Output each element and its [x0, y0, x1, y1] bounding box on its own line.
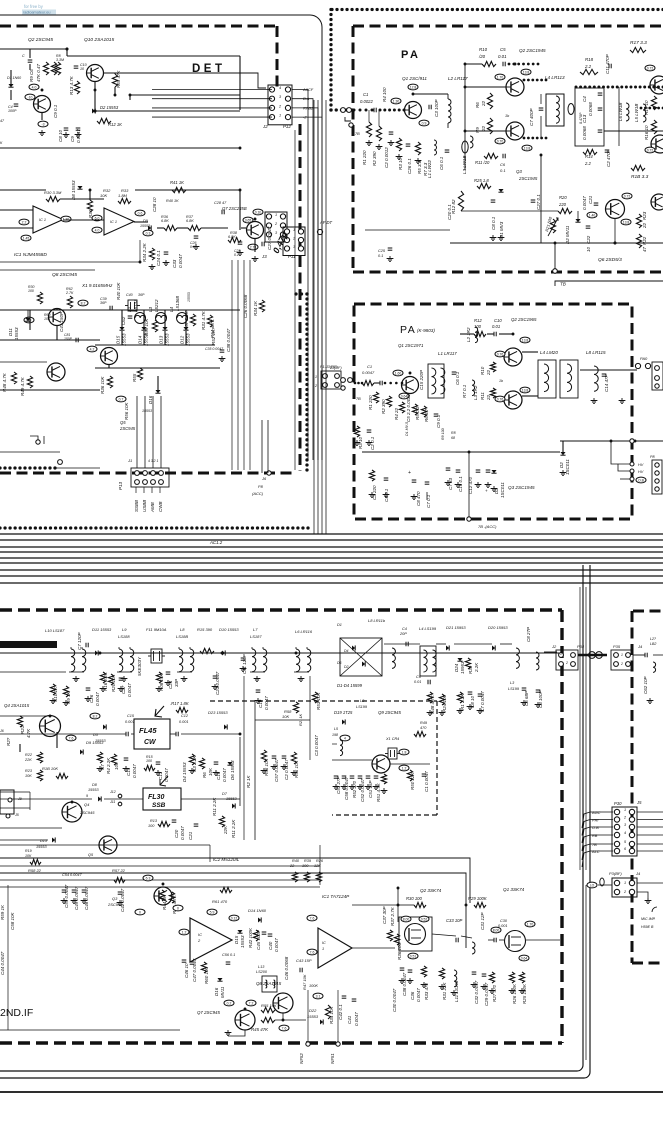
svg-text:100: 100: [302, 864, 309, 868]
svg-text:R10: R10: [479, 47, 488, 52]
svg-text:3.65: 3.65: [245, 218, 252, 222]
svg-text:C41 150P: C41 150P: [59, 312, 64, 332]
svg-text:1.60: 1.60: [395, 371, 402, 375]
svg-text:R49 4.7K: R49 4.7K: [20, 376, 25, 396]
svg-text:15553: 15553: [88, 788, 99, 792]
svg-text:C27 0.1: C27 0.1: [536, 194, 541, 210]
svg-text:D21 15953: D21 15953: [446, 625, 466, 630]
svg-text:R56 10K: R56 10K: [124, 401, 129, 420]
svg-text:L2?: L2?: [650, 637, 656, 641]
svg-text:D1 MV3: D1 MV3: [499, 221, 504, 238]
svg-text:C12: C12: [181, 714, 189, 718]
svg-text:R61 470: R61 470: [212, 899, 228, 904]
svg-text:0.470P: 0.470P: [579, 112, 583, 124]
svg-text:D19 1T25: D19 1T25: [334, 710, 353, 715]
svg-text:L4 LR113: L4 LR113: [545, 75, 565, 80]
svg-text:15553: 15553: [142, 409, 152, 413]
svg-text:D1: D1: [337, 623, 342, 627]
svg-text:D4: D4: [344, 649, 349, 653]
svg-text:MIC IMP.: MIC IMP.: [641, 917, 656, 921]
svg-text:IC1 NJM4558D: IC1 NJM4558D: [14, 252, 47, 258]
svg-text:2.2: 2.2: [22, 220, 27, 224]
svg-text:Q2 2SC1945: Q2 2SC1945: [519, 48, 546, 53]
svg-text:1: 1: [624, 808, 626, 812]
svg-text:AC1.2: AC1.2: [209, 540, 223, 545]
svg-text:7B: 7B: [356, 397, 361, 401]
svg-text:R30 100: R30 100: [406, 896, 423, 901]
svg-text:R40 1K: R40 1K: [166, 199, 179, 203]
svg-text:Q7 2SC945: Q7 2SC945: [197, 1010, 221, 1015]
svg-text:C24: C24: [168, 680, 173, 689]
svg-text:Q7 2SC245B: Q7 2SC245B: [222, 206, 247, 211]
svg-text:C25: C25: [378, 249, 386, 253]
svg-text:C21: C21: [188, 831, 193, 840]
svg-text:C6 0.1: C6 0.1: [455, 371, 460, 385]
svg-text:C27 0.0047: C27 0.0047: [267, 226, 272, 250]
svg-text:R25 1.8: R25 1.8: [474, 178, 489, 183]
svg-text:R6: R6: [475, 102, 480, 108]
svg-text:C15: C15: [127, 714, 135, 718]
svg-text:1.30: 1.30: [63, 217, 70, 221]
svg-text:LS199: LS199: [508, 687, 520, 691]
svg-text:1: 1: [315, 375, 317, 379]
svg-text:1: 1: [279, 114, 281, 118]
svg-text:0.51: 0.51: [410, 954, 417, 958]
svg-text:20P: 20P: [399, 632, 407, 636]
svg-text:0.76: 0.76: [497, 352, 504, 356]
svg-text:R11 2.2K: R11 2.2K: [231, 819, 236, 838]
svg-text:5.9: 5.9: [210, 910, 215, 914]
svg-text:D2: D2: [559, 462, 564, 468]
svg-text:15553: 15553: [140, 224, 150, 228]
svg-text:C3 100P: C3 100P: [538, 690, 543, 708]
svg-text:D13: D13: [159, 335, 164, 344]
svg-text:LB2: LB2: [650, 642, 656, 646]
svg-text:CWB: CWB: [158, 502, 163, 513]
svg-text:O.B: O.B: [592, 825, 599, 830]
svg-text:1: 1: [322, 947, 324, 951]
svg-text:15553: 15553: [187, 292, 191, 302]
svg-text:C6 0.1: C6 0.1: [439, 156, 444, 170]
svg-text:C43 15P: C43 15P: [296, 958, 312, 963]
svg-text:R40 10K: R40 10K: [116, 281, 121, 300]
svg-text:L10 LS187: L10 LS187: [45, 628, 65, 633]
svg-text:7B: 7B: [355, 132, 360, 136]
svg-text:L2: L2: [127, 306, 132, 312]
svg-text:0.0068: 0.0068: [588, 102, 593, 116]
svg-text:C62: C62: [121, 316, 126, 325]
svg-text:L5: L5: [334, 727, 338, 731]
svg-text:10: 10: [80, 67, 84, 71]
svg-text:0.1: 0.1: [378, 254, 383, 258]
svg-text:R49: R49: [420, 721, 428, 725]
svg-text:D2 15553: D2 15553: [100, 105, 119, 110]
svg-text:R39: R39: [304, 859, 312, 863]
svg-text:R4 2.2K: R4 2.2K: [106, 757, 111, 774]
svg-text:10K: 10K: [25, 854, 32, 858]
svg-text:C8 0.1: C8 0.1: [491, 216, 496, 230]
svg-text:0.72: 0.72: [624, 194, 631, 198]
svg-text:6.8K: 6.8K: [186, 219, 194, 223]
svg-text:R2 1K: R2 1K: [246, 774, 251, 788]
svg-text:(ACC): (ACC): [252, 491, 264, 496]
svg-text:L1 LR117: L1 LR117: [438, 351, 457, 356]
svg-text:C38 0.0047: C38 0.0047: [402, 972, 407, 996]
svg-text:J3(RF): J3(RF): [329, 366, 342, 370]
svg-text:0.0047: 0.0047: [127, 683, 132, 697]
svg-text:.R17 1.8K: .R17 1.8K: [170, 701, 189, 706]
svg-text:D20 15953: D20 15953: [488, 625, 508, 630]
svg-text:C51 15P: C51 15P: [368, 780, 373, 798]
svg-text:C41: C41: [347, 1015, 352, 1024]
svg-text:C4: C4: [402, 627, 407, 631]
svg-text:15553: 15553: [36, 845, 47, 849]
svg-text:RB: RB: [592, 833, 598, 838]
svg-text:R13: R13: [150, 819, 158, 823]
svg-text:L4 LM20: L4 LM20: [540, 350, 558, 355]
svg-text:0.01: 0.01: [498, 54, 507, 59]
svg-text:Q4 2SA1015: Q4 2SA1015: [4, 703, 30, 708]
svg-text:L8 LR115: L8 LR115: [586, 350, 606, 355]
svg-text:R55 10K: R55 10K: [261, 1003, 277, 1008]
svg-text:C15 220P: C15 220P: [419, 370, 424, 390]
svg-text:0.0047: 0.0047: [222, 768, 227, 782]
svg-text:15553: 15553: [165, 333, 170, 346]
svg-text:R65 47K: R65 47K: [116, 69, 121, 88]
svg-text:4: 4: [279, 86, 281, 90]
svg-text:9: 9: [86, 794, 88, 798]
svg-text:1b: 1b: [499, 379, 503, 383]
svg-text:8.2: 8.2: [81, 301, 86, 305]
svg-text:L3 1R2: L3 1R2: [473, 385, 478, 400]
svg-text:D11: D11: [8, 328, 13, 336]
svg-text:Q1 2SC1971: Q1 2SC1971: [398, 343, 424, 348]
svg-text:R25 100K: R25 100K: [522, 983, 527, 1004]
svg-text:P12: P12: [283, 124, 291, 129]
svg-text:0.1b: 0.1b: [255, 210, 262, 214]
svg-text:C: C: [22, 54, 25, 58]
svg-text:100: 100: [474, 324, 482, 329]
svg-text:Q3 2SC1945: Q3 2SC1945: [508, 485, 535, 490]
svg-text:Q5: Q5: [88, 853, 94, 857]
svg-text:D5: D5: [337, 661, 342, 665]
svg-text:D14: D14: [138, 335, 143, 344]
svg-text:0.0047: 0.0047: [274, 938, 279, 952]
svg-text:0.52: 0.52: [421, 917, 428, 921]
svg-text:1: 1: [621, 653, 623, 657]
svg-text:5KE303Y: 5KE303Y: [137, 656, 142, 676]
svg-text:-10: -10: [28, 95, 33, 99]
svg-text:PRI: PRI: [592, 818, 599, 823]
svg-text:R33 470: R33 470: [424, 982, 429, 1000]
svg-text:1b: 1b: [505, 114, 509, 118]
svg-text:R18: R18: [585, 57, 594, 62]
svg-text:L3 LW1B: L3 LW1B: [462, 156, 467, 174]
svg-text:0.72: 0.72: [647, 148, 654, 152]
svg-text:68: 68: [451, 436, 455, 440]
svg-text:36P: 36P: [138, 293, 145, 297]
svg-text:C8 470: C8 470: [416, 491, 421, 506]
svg-text:X1 9.0165MHz: X1 9.0165MHz: [81, 283, 113, 288]
svg-text:C20: C20: [174, 829, 179, 838]
svg-text:D22: D22: [309, 1008, 317, 1013]
svg-text:IC 1: IC 1: [110, 220, 117, 224]
svg-text:R22: R22: [642, 236, 647, 245]
svg-text:R54 4.7K: R54 4.7K: [210, 318, 215, 338]
svg-text:D15: D15: [234, 935, 239, 944]
svg-text:470: 470: [420, 726, 427, 730]
svg-text:13.8: 13.8: [522, 388, 529, 392]
svg-text:100: 100: [28, 289, 34, 293]
svg-text:FL45: FL45: [139, 726, 157, 735]
svg-text:PA: PA: [401, 49, 420, 61]
svg-text:R9 100: R9 100: [441, 428, 445, 440]
svg-text:4: 4: [624, 831, 626, 835]
svg-text:D9 15553: D9 15553: [86, 740, 104, 745]
svg-text:Q2 2SC1965: Q2 2SC1965: [511, 317, 537, 322]
svg-text:8.2: 8.2: [93, 714, 98, 718]
svg-text:C52 0.0047: C52 0.0047: [360, 778, 365, 802]
svg-text:15553: 15553: [186, 333, 191, 346]
svg-text:C6: C6: [500, 162, 506, 167]
svg-text:C38 0.0047: C38 0.0047: [226, 328, 231, 352]
svg-text:/20: /20: [478, 54, 486, 59]
svg-text:J3: J3: [261, 254, 267, 259]
svg-text:R60 100: R60 100: [204, 966, 209, 984]
svg-text:Q8 2SC945: Q8 2SC945: [52, 272, 77, 278]
svg-text:LO: LO: [590, 883, 595, 887]
svg-text:L1 LW22: L1 LW22: [427, 160, 432, 178]
svg-text:10: 10: [586, 246, 591, 252]
svg-text:C40: C40: [268, 941, 273, 950]
svg-text:13.8: 13.8: [623, 220, 630, 224]
svg-text:0.72: 0.72: [647, 66, 654, 70]
svg-text:2.7K: 2.7K: [65, 291, 74, 295]
svg-text:R40: R40: [292, 859, 300, 863]
svg-text:15553: 15553: [122, 333, 127, 346]
svg-text:C3 220: C3 220: [372, 485, 377, 500]
svg-text:C59 0.0047: C59 0.0047: [64, 884, 69, 908]
svg-text:IC 1: IC 1: [39, 218, 46, 222]
svg-text:0.0047: 0.0047: [582, 196, 587, 210]
svg-text:C28 47: C28 47: [214, 201, 227, 205]
svg-text:C46 10: C46 10: [184, 963, 189, 978]
svg-text:USBB: USBB: [142, 500, 147, 512]
svg-text:C5 2.2 0.0022: C5 2.2 0.0022: [406, 393, 411, 422]
svg-text:10K: 10K: [100, 193, 107, 198]
svg-text:C30 0.0047: C30 0.0047: [392, 988, 397, 1012]
svg-text:4.0: 4.0: [32, 85, 37, 89]
svg-text:22K: 22K: [223, 825, 228, 835]
svg-text:0.0047: 0.0047: [132, 764, 137, 778]
svg-text:0.2: 0.2: [227, 1001, 232, 1005]
svg-text:R2?: R2?: [6, 737, 11, 746]
svg-text:1.30: 1.30: [393, 99, 400, 103]
svg-text:4.2: 4.2: [90, 347, 95, 351]
svg-text:ALC: ALC: [591, 849, 600, 854]
svg-text:13.8: 13.8: [524, 146, 531, 150]
svg-text:13.8: 13.8: [522, 338, 529, 342]
svg-text:R36 10K: R36 10K: [100, 375, 105, 394]
svg-text:2: 2: [620, 662, 623, 666]
svg-text:PA0: PA0: [640, 356, 648, 361]
svg-text:0.0047: 0.0047: [362, 370, 375, 375]
svg-text:P13: P13: [118, 481, 123, 490]
svg-text:15953: 15953: [460, 661, 465, 674]
svg-text:C8 10: C8 10: [58, 129, 63, 142]
svg-text:P35: P35: [613, 644, 621, 649]
svg-text:C3 0.0047: C3 0.0047: [314, 735, 319, 756]
svg-text:Q1 3SK74: Q1 3SK74: [503, 887, 525, 892]
svg-text:L13: L13: [258, 965, 265, 969]
svg-text:0.0047: 0.0047: [178, 254, 183, 268]
svg-text:0.01: 0.01: [414, 680, 421, 684]
svg-text:+: +: [484, 489, 489, 492]
svg-text:H59E B: H59E B: [641, 925, 654, 929]
svg-text:0.0022: 0.0022: [360, 99, 373, 104]
svg-text:100P: 100P: [8, 109, 17, 113]
svg-text:D16: D16: [214, 987, 219, 996]
svg-text:1.8: 1.8: [402, 750, 407, 754]
svg-text:C37 30P: C37 30P: [382, 906, 387, 924]
svg-text:R31 4.7K: R31 4.7K: [201, 310, 206, 330]
svg-text:D1 MV-5: D1 MV-5: [405, 422, 409, 436]
svg-text:PA: PA: [400, 324, 416, 336]
svg-text:R22: R22: [25, 753, 33, 757]
svg-text:1: 1: [560, 652, 562, 656]
svg-text:L51368: L51368: [175, 295, 180, 311]
svg-text:C1: C1: [363, 92, 368, 97]
svg-text:L8 LR11b: L8 LR11b: [368, 618, 386, 623]
svg-text:7B -(ACC): 7B -(ACC): [478, 524, 497, 529]
svg-text:AMB: AMB: [150, 502, 155, 513]
svg-text:Q1 2SC/911: Q1 2SC/911: [402, 76, 427, 81]
svg-text:D14 1N60: D14 1N60: [248, 908, 267, 913]
svg-text:C9 0.1: C9 0.1: [53, 104, 58, 118]
svg-text:C24 0.1: C24 0.1: [156, 250, 161, 266]
svg-text:Q2 2SC945: Q2 2SC945: [28, 37, 53, 43]
svg-text:R30 3.3M: R30 3.3M: [44, 190, 62, 195]
svg-text:D4 15553: D4 15553: [182, 762, 187, 782]
svg-text:7.2: 7.2: [249, 1001, 254, 1005]
svg-text:0.76: 0.76: [497, 397, 504, 401]
svg-text:R7 0.1: R7 0.1: [462, 384, 467, 398]
svg-text:(K-9803): (K-9803): [417, 328, 435, 333]
svg-text:0.0047: 0.0047: [416, 988, 421, 1002]
svg-text:D1 1N60: D1 1N60: [7, 76, 21, 80]
svg-text:C12 470: C12 470: [468, 476, 473, 494]
svg-text:C32 0.0047: C32 0.0047: [474, 980, 479, 1004]
svg-text:C3 100P: C3 100P: [434, 99, 439, 117]
svg-text:C58 10K: C58 10K: [10, 911, 15, 930]
svg-text:2.2: 2.2: [584, 161, 591, 166]
svg-text:15553: 15553: [226, 797, 237, 801]
svg-text:D23 15553: D23 15553: [208, 710, 228, 715]
svg-text:47: 47: [642, 246, 647, 252]
svg-text:C36: C36: [410, 991, 415, 1000]
svg-text:R58 22: R58 22: [28, 868, 42, 873]
svg-text:2SC945: 2SC945: [79, 810, 95, 815]
svg-text:L4 LS199: L4 LS199: [419, 626, 437, 631]
svg-text:Q8 2SA1015: Q8 2SA1015: [256, 981, 282, 986]
svg-text:C10: C10: [494, 318, 502, 323]
svg-text:22: 22: [289, 864, 295, 868]
svg-text:R12: R12: [474, 318, 482, 323]
svg-text:IC1 TA7124P: IC1 TA7124P: [322, 894, 350, 899]
svg-text:R16 10: R16 10: [644, 125, 649, 140]
svg-text:HV: HV: [638, 470, 644, 474]
svg-text:R52 270: R52 270: [352, 780, 357, 798]
svg-text:J5: J5: [14, 813, 19, 817]
svg-text:C22: C22: [586, 235, 591, 244]
svg-text:R8: R8: [451, 431, 456, 435]
svg-text:7.6: 7.6: [310, 916, 315, 920]
svg-text:R12 1K: R12 1K: [108, 122, 122, 127]
svg-text:22K: 22K: [24, 758, 32, 762]
svg-text:O.B: O.B: [638, 478, 645, 482]
svg-text:8.00: 8.00: [493, 928, 500, 932]
svg-text:J6: J6: [261, 476, 267, 481]
svg-text:N#51: N#51: [330, 1053, 335, 1064]
svg-text:100K: 100K: [309, 984, 318, 988]
svg-text:7B: 7B: [592, 842, 597, 847]
svg-text:D15: D15: [116, 335, 121, 344]
svg-text:P3(BF): P3(BF): [609, 871, 622, 876]
svg-text:0.3: 0.3: [146, 231, 151, 235]
svg-text:1.8M: 1.8M: [118, 193, 128, 198]
svg-text:0.0047: 0.0047: [95, 692, 100, 706]
svg-text:2.2K: 2.2K: [474, 662, 479, 673]
svg-text:C26 0.1: C26 0.1: [407, 158, 412, 174]
svg-text:for free by: for free by: [24, 4, 44, 9]
svg-text:-3: -3: [41, 122, 44, 126]
svg-text:22: 22: [481, 100, 486, 107]
svg-text:R9: R9: [475, 127, 480, 133]
svg-text:Q3: Q3: [516, 169, 522, 174]
svg-text:R15 390: R15 390: [197, 627, 213, 632]
svg-text:7.6: 7.6: [282, 1026, 287, 1030]
svg-text:J4: J4: [637, 644, 643, 649]
svg-text:C21: C21: [588, 195, 593, 204]
svg-text:R2 390: R2 390: [381, 399, 386, 414]
svg-text:IC2 M5120IL: IC2 M5120IL: [213, 857, 240, 862]
svg-text:C56 0.1: C56 0.1: [222, 953, 235, 957]
svg-text:J4: J4: [635, 871, 641, 876]
svg-text:198: 198: [332, 733, 338, 737]
svg-text:C29 0.0047: C29 0.0047: [484, 982, 489, 1006]
svg-text:1: 1: [275, 213, 277, 217]
svg-text:3.3M: 3.3M: [56, 58, 64, 62]
svg-text:10K: 10K: [44, 317, 51, 321]
svg-text:0.1: 0.1: [500, 168, 506, 173]
svg-text:HV: HV: [638, 463, 644, 467]
svg-text:10K: 10K: [208, 767, 213, 776]
svg-text:L5 LW1B: L5 LW1B: [634, 104, 639, 122]
svg-text:R11 /20: R11 /20: [475, 160, 490, 165]
svg-text:7.6: 7.6: [69, 736, 74, 740]
svg-text:Q4: Q4: [84, 802, 90, 807]
svg-text:R19: R19: [25, 849, 32, 853]
svg-text:C20 0.1: C20 0.1: [447, 204, 452, 220]
svg-text:R1B 3.3: R1B 3.3: [631, 174, 649, 180]
svg-text:J5: J5: [636, 800, 642, 805]
svg-text:C8 27P: C8 27P: [526, 627, 531, 642]
svg-text:R1 220: R1 220: [368, 395, 373, 410]
svg-text:D2: D2: [344, 665, 349, 669]
svg-text:0.9: 0.9: [422, 121, 427, 125]
svg-text:C4: C4: [582, 96, 587, 102]
svg-text:1.2: 1.2: [402, 766, 407, 770]
